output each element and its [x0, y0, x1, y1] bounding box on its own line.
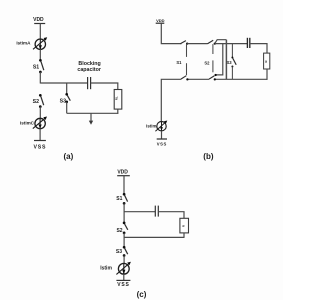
wire jog from S2 top to crossover (b): [215, 40, 227, 44]
wire S3 to bottom rail: [66, 102, 68, 113]
svg-text:S3: S3: [226, 60, 232, 65]
svg-text:VDD: VDD: [156, 18, 165, 23]
svg-text:S3: S3: [116, 249, 122, 255]
switch S2 (a) label: [33, 99, 39, 105]
svg-text:(b): (b): [203, 152, 214, 161]
svg-text:S1: S1: [176, 60, 182, 65]
power VSS (a) label: [34, 144, 47, 150]
capacitor C (b): [247, 38, 249, 48]
current source IstimC label: [20, 121, 35, 126]
switch S3 (c): [123, 246, 128, 257]
wire crossover from top rail to S2 bottom tip (b): [216, 44, 223, 75]
switch S3 (b): [231, 44, 236, 80]
power VSS (b) bar: [157, 138, 167, 140]
bottom rail (a): [67, 112, 119, 114]
top rail (c) right: [158, 212, 184, 219]
svg-text:Istim: Istim: [100, 266, 112, 272]
switch S2 (a): [39, 94, 44, 108]
switch S2 (c): [123, 222, 128, 235]
current source Istim (c): [116, 262, 130, 275]
top rail (a) right of capacitor: [91, 82, 119, 84]
power VDD (a) label: [33, 17, 44, 23]
bottom rail (b) middle: [187, 78, 209, 80]
wire Istim to VSS (c): [123, 274, 125, 280]
switch S2 (b) label: [204, 60, 210, 65]
switch S1 bottom (b): [181, 76, 189, 81]
capacitor C (c): [155, 206, 158, 217]
bottom rail (b) right: [215, 78, 268, 80]
power VSS (c) label: [117, 282, 129, 288]
wire S2 to IstimC: [39, 107, 41, 119]
bottom rail (c): [124, 236, 184, 238]
svg-text:VSS: VSS: [157, 142, 167, 147]
current source IstimA: [33, 37, 47, 49]
switch S1 (c): [123, 193, 128, 205]
resistor RL (a): [114, 90, 122, 110]
svg-text:IstimA: IstimA: [16, 40, 31, 45]
power VDD (c) bar: [117, 175, 130, 177]
power VDD (b) label: [156, 18, 165, 23]
caption (b): [203, 152, 214, 161]
wire VDD to S1 (c): [123, 176, 125, 194]
wire S2 to S3 (c): [123, 233, 125, 247]
svg-text:VSS: VSS: [34, 144, 47, 150]
svg-text:S1: S1: [33, 65, 39, 71]
svg-text:capacitor: capacitor: [77, 67, 101, 73]
switch S2 top (b): [208, 40, 216, 44]
top rail (b) right: [215, 43, 248, 45]
caption (c): [137, 290, 147, 299]
svg-text:S2: S2: [33, 99, 39, 105]
switch S1 linkage (b): [186, 44, 188, 75]
wire S3 branch top: [66, 83, 68, 94]
switch S2 (c) label: [116, 228, 122, 234]
wire resistor to bottom rail (b): [266, 69, 268, 80]
current source IstimA label: [16, 40, 31, 45]
wire resistor to bottom rail: [117, 109, 119, 114]
svg-text:Istim: Istim: [146, 124, 156, 129]
svg-text:IstimC: IstimC: [20, 121, 35, 126]
svg-text:R: R: [264, 60, 268, 62]
power VSS (c) bar: [116, 279, 130, 281]
current source Istim (c) label: [100, 266, 112, 272]
switch S3 (a) label: [60, 98, 66, 104]
wire rail to resistor: [117, 83, 119, 90]
wire S1 to node (c): [123, 203, 125, 222]
svg-text:(c): (c): [137, 290, 147, 299]
svg-text:VDD: VDD: [33, 17, 44, 23]
capacitor C blocking (a): [88, 77, 91, 89]
switch S1 (a) label: [33, 65, 39, 71]
wire S1 to node: [39, 72, 41, 84]
svg-text:VDD: VDD: [117, 169, 128, 175]
node blade tip dot (b): [214, 74, 216, 76]
wire VDD to IstimA: [39, 24, 41, 40]
power VDD (c) label: [117, 169, 128, 175]
ground (a): [89, 113, 93, 125]
top rail (b) middle: [187, 43, 207, 45]
caption (a): [64, 152, 74, 161]
current source IstimC: [33, 117, 47, 129]
switch S1 (a): [39, 59, 44, 73]
svg-text:S1: S1: [116, 196, 122, 202]
switch S3 (c) label: [116, 249, 122, 255]
svg-text:S2: S2: [204, 60, 210, 65]
resistor R (c): [180, 218, 189, 233]
label Blocking capacitor: [77, 61, 101, 73]
power VSS (b) label: [157, 142, 167, 147]
wire Istim to VSS (b): [161, 131, 163, 139]
svg-text:(a): (a): [64, 152, 74, 161]
svg-text:RL: RL: [115, 96, 119, 100]
node / top rail (a) left: [40, 82, 87, 84]
wire resistor to bottom rail (c): [183, 233, 185, 238]
wire IstimA to S1: [39, 49, 41, 60]
svg-text:S3: S3: [60, 98, 66, 104]
wire crossover down-leg (b): [225, 40, 227, 80]
switch S2 bottom (b): [209, 76, 216, 81]
switch S3 (a): [65, 93, 70, 103]
switch S2 linkage (b): [212, 44, 214, 72]
top rail (c): [124, 211, 155, 213]
current source Istim (b): [155, 121, 167, 132]
switch S1 top (b): [180, 41, 188, 45]
power VDD (a) bar: [34, 23, 45, 25]
resistor R (b): [264, 53, 270, 69]
svg-text:R: R: [181, 224, 185, 227]
bottom rail (b) left: [161, 79, 181, 121]
switch S1 (b) label: [176, 60, 182, 65]
switch S1 (c) label: [116, 196, 122, 202]
wire IstimC to VSS: [39, 129, 41, 141]
power VSS (a) bar: [34, 140, 46, 142]
switch S3 (b) label: [226, 60, 232, 65]
svg-text:S2: S2: [116, 228, 122, 234]
top rail (b) to resistor: [250, 44, 267, 54]
svg-text:VSS: VSS: [117, 282, 129, 288]
wire S3 to Istim (c): [123, 256, 125, 264]
current source Istim (b) label: [146, 124, 156, 129]
power VDD (b) bar: [156, 22, 165, 24]
wire VDD down (b): [161, 23, 181, 43]
